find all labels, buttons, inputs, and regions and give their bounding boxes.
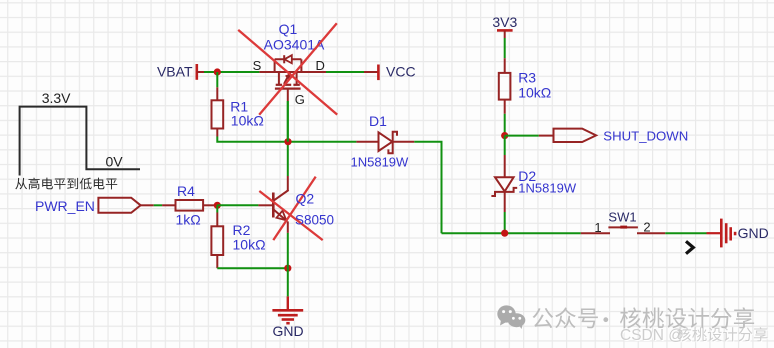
net flag VBAT (197, 64, 204, 80)
switch SW1 (581, 226, 666, 234)
wire PWR_EN to R4 (154, 204, 162, 206)
wire Q1 gate to Q2 collector (287, 101, 289, 176)
waveform pulse 3.3V to 0V (20, 107, 140, 176)
svg-text:PWR_EN: PWR_EN (35, 198, 95, 214)
wire D1 to bottom rail (414, 142, 441, 234)
wire Q1 gate vertical (287, 101, 289, 142)
resistor R1 (212, 87, 224, 136)
node junction bottom rail / D2 (501, 230, 508, 237)
red cross over Q2 (259, 177, 322, 241)
svg-text:1: 1 (594, 220, 601, 235)
wire junction to Q2 base (217, 204, 258, 206)
svg-text:R4: R4 (177, 183, 195, 199)
svg-text:VBAT: VBAT (157, 63, 193, 79)
resistor R3 (499, 58, 511, 114)
diode D1 (356, 132, 414, 153)
svg-text:R2: R2 (233, 222, 251, 238)
svg-text:2: 2 (643, 220, 650, 235)
ground GND (Q2 emitter) (272, 296, 303, 323)
wire D2 to bottom rail (504, 212, 506, 233)
wire SW1 to GND (665, 232, 721, 234)
wire junction to D2 (504, 136, 506, 178)
resistor R2 (211, 205, 223, 268)
port SHUT_DOWN (554, 129, 597, 142)
svg-text:VCC: VCC (386, 64, 416, 80)
cursor chevron (686, 241, 693, 253)
watermark text CSDN @核桃设计分享 (620, 327, 769, 345)
svg-text:S8050: S8050 (295, 213, 334, 228)
svg-text:S: S (253, 58, 262, 73)
wire VBAT to Q1 source (204, 71, 259, 73)
svg-text:3.3V: 3.3V (42, 90, 71, 106)
svg-text:Q2: Q2 (296, 191, 315, 207)
svg-text:SW1: SW1 (608, 210, 636, 225)
wire bottom rail (442, 232, 581, 234)
transistor Q2 (258, 176, 288, 233)
svg-text:SHUT_DOWN: SHUT_DOWN (603, 129, 688, 144)
watermark text 公众号·核桃设计分享 (533, 307, 755, 328)
svg-text:R3: R3 (518, 70, 536, 86)
wire 3V3 to R3 (504, 38, 506, 58)
svg-text:Q1: Q1 (279, 21, 298, 37)
wire junction down to R1 (216, 72, 218, 87)
svg-text:GND: GND (272, 323, 303, 339)
svg-text:10kΩ: 10kΩ (231, 113, 264, 129)
wire R2 bottom to emitter (217, 267, 287, 269)
port PWR_EN (98, 198, 153, 213)
svg-text:D: D (316, 58, 325, 73)
node junction gate line / R1 / D1 (284, 138, 291, 145)
svg-text:1N5819W: 1N5819W (518, 180, 577, 195)
wire R3 to junction (504, 114, 506, 136)
ground GND (right, earth bars) (721, 219, 735, 248)
node junction emitter/R2 (284, 265, 291, 272)
wire R1 bottom to D1 (217, 137, 356, 142)
power flag 3V3 (497, 30, 513, 38)
svg-text:10kΩ: 10kΩ (233, 237, 266, 253)
svg-text:0V: 0V (106, 154, 124, 170)
watermark wechat icon (497, 305, 525, 329)
transistor Q1 (P-MOSFET) (259, 55, 326, 101)
wire junction to SHUT_DOWN port (505, 135, 554, 137)
node junction R4/R2/Q2-base (214, 202, 221, 209)
svg-text:AO3401A: AO3401A (264, 36, 325, 52)
svg-text:G: G (295, 92, 305, 107)
svg-text:CSDN @: CSDN @ (620, 327, 684, 344)
red cross over Q1 (238, 23, 337, 115)
svg-text:10kΩ: 10kΩ (518, 85, 551, 101)
diode D2 (491, 177, 517, 212)
svg-text:1N5819W: 1N5819W (350, 155, 409, 170)
net flag VCC (377, 65, 380, 81)
svg-text:3V3: 3V3 (492, 14, 517, 30)
node junction VBAT/R1 (214, 68, 221, 75)
svg-text:1kΩ: 1kΩ (176, 212, 201, 228)
annotation 从高电平到低电平 (15, 178, 117, 190)
wire Q1 drain to VCC (326, 71, 378, 73)
wire emitter to GND (287, 233, 289, 297)
svg-text:D1: D1 (369, 113, 387, 129)
node junction R3/D2/SHUT_DOWN (501, 132, 508, 139)
svg-text:GND: GND (738, 225, 769, 241)
resistor R4 (162, 200, 217, 211)
